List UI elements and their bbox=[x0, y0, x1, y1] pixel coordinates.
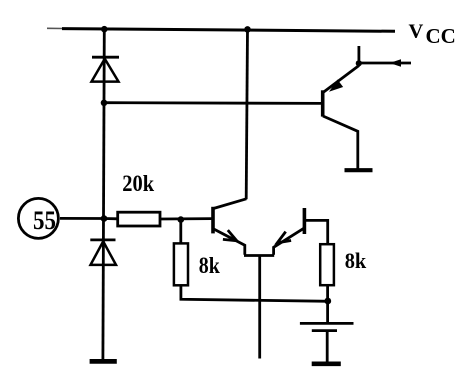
resistor R1 20k body bbox=[118, 212, 160, 226]
transistor Q2 base bar bbox=[303, 208, 307, 234]
svg-text:V: V bbox=[409, 21, 424, 43]
node: junction dot pin55 / left column bbox=[101, 215, 108, 222]
wire: node below D1 to Q3 base bbox=[104, 101, 323, 105]
battery B1 negative plate bbox=[312, 329, 337, 332]
node: junction dot left column / VCC rail bbox=[101, 26, 108, 33]
transistor Q3 emitter arrow bbox=[331, 81, 342, 91]
wire: Q1 base wire from 20k node bbox=[160, 217, 212, 220]
transistor Q1 emitter lead bbox=[213, 229, 245, 255]
wire: node to left 8k top bbox=[179, 220, 182, 244]
wire: left column vertical (VCC rail to ground) bbox=[103, 29, 104, 360]
svg-text:20k: 20k bbox=[122, 171, 154, 196]
node: junction dot Q3 emitter / output bbox=[356, 60, 362, 66]
node: junction dot below D1 bbox=[101, 100, 108, 107]
wire: bottom rail with left 8k elbow bbox=[181, 285, 331, 301]
wire: right 8k bottom lead bbox=[326, 285, 329, 301]
svg-text:55: 55 bbox=[33, 205, 56, 235]
diode D1 cathode bar bbox=[92, 56, 119, 59]
transistor Q1 base bar bbox=[211, 207, 215, 234]
wire: Q2 base to right 8k bbox=[304, 220, 327, 244]
wire: battery bottom to ground bbox=[326, 332, 329, 362]
transistor Q2 emitter arrow bbox=[277, 232, 291, 243]
svg-text:8k: 8k bbox=[345, 248, 367, 273]
arrowhead on output lead bbox=[390, 59, 402, 66]
transistor Q1 collector lead bbox=[213, 199, 246, 209]
wire: Q3 emitter stub bbox=[357, 46, 360, 64]
wire: output lead right bbox=[359, 62, 411, 65]
svg-text:CC: CC bbox=[426, 24, 456, 48]
transistor Q3 base bar bbox=[321, 90, 325, 116]
ground: left column ground bar bbox=[90, 359, 117, 364]
wire: emitter tail down (current source) bbox=[258, 256, 261, 359]
diode D2 cathode bar bbox=[90, 238, 115, 241]
pin 55 terminal circle bbox=[18, 198, 58, 238]
resistor R3 8k (right) body bbox=[320, 244, 334, 285]
diode D1 triangle bbox=[92, 59, 119, 82]
ground: battery ground bar bbox=[312, 361, 341, 366]
ground: Q3 ground bar bbox=[345, 168, 373, 172]
wire: center vertical from VCC rail to Q1 collector bbox=[246, 29, 247, 199]
battery B1 positive plate bbox=[300, 322, 354, 325]
node: junction dot right 8k / battery / bottom rail bbox=[324, 298, 331, 305]
wire: junction to battery top bbox=[326, 301, 329, 322]
diode D2 triangle bbox=[91, 241, 117, 265]
node: junction dot 20k / Q1 base / left 8k bbox=[178, 216, 185, 223]
wire: pin 55 to left column node bbox=[60, 217, 104, 220]
resistor R2 8k (left) body bbox=[174, 243, 188, 285]
transistor Q1 emitter arrow bbox=[223, 230, 237, 241]
wire: faint scan dash at rail left end bbox=[47, 27, 62, 29]
transistor Q2 emitter lead bbox=[274, 228, 304, 255]
wire: joined emitter bar bbox=[244, 254, 274, 257]
transistor Q3 collector lead bbox=[323, 116, 358, 169]
svg-text:8k: 8k bbox=[199, 253, 221, 279]
transistor Q3 emitter lead bbox=[323, 66, 359, 93]
node: junction dot center column / VCC rail bbox=[244, 26, 251, 33]
wire: VCC top rail bbox=[62, 29, 395, 32]
wire: left column node to 20k bbox=[104, 217, 118, 220]
